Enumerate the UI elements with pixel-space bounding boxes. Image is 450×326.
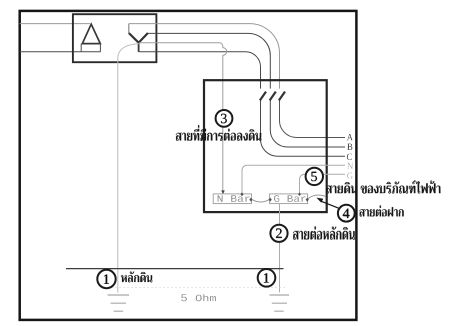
wire phase B (wye right arm to panel, label B) [148, 33, 270, 88]
thai label: sai to lak din (grounding electrode conductor) [293, 227, 355, 240]
thai label: sai to fak (bonding jumper) [359, 206, 403, 217]
neutral terminal label N [347, 163, 353, 169]
resistance note 5 Ohm [181, 294, 187, 301]
wye left riser [128, 24, 130, 34]
delta legs to bottom wire [81, 44, 100, 52]
neutral arrowhead into N bar [221, 190, 225, 194]
grounded neutral drop at transformer (to left ground rod) [118, 44, 139, 293]
neutral bar (N Bar) [213, 194, 251, 204]
transformer U1 box [73, 14, 156, 62]
G Bar label [274, 195, 306, 202]
ground bar (G Bar) [270, 194, 308, 204]
phase terminal label B [347, 144, 352, 150]
callout arrow from circle 4 to bonding jumper [321, 201, 340, 208]
wire phase C (wye stem bottom to panel, label C) [139, 52, 261, 89]
thai label: sai din khong boriphan faifa (equipment ground) [326, 180, 440, 193]
transformer wye winding [129, 33, 148, 43]
wire phase A incoming (source to delta apex) [20, 23, 90, 25]
callout circle 2 (grounding electrode conductor) [270, 225, 287, 242]
neutral wire N (wye center to N bar, with crossover hop) [139, 43, 227, 191]
terminal diamond G bar top [298, 192, 301, 196]
terminal diamond G bar right end [306, 198, 309, 202]
callout circle 1 (right, ground rod) [258, 269, 276, 287]
thai label: lak din (ground rod) [121, 272, 152, 283]
callout circle 5 (equipment grounding conductor) [306, 168, 323, 185]
transformer delta winding [82, 24, 100, 43]
callout circle 3 (grounded conductor) [216, 110, 233, 127]
wire phase C incoming bottom line (source, under delta) [20, 51, 101, 53]
breaker slash on wire B [270, 92, 276, 101]
breaker slash on wire C [260, 92, 266, 101]
service panel enclosure [204, 80, 327, 212]
ground terminal label G [347, 172, 352, 178]
terminal diamond N bar right end [249, 198, 252, 202]
wye stem [138, 42, 140, 51]
earth dotted line (5 Ohm) [104, 287, 286, 289]
thai label: sai thi mi kan to long din (grounded conductor) [176, 125, 262, 141]
wire phase A (wye top to panel, label A) [129, 24, 280, 89]
terminal diamond G bar left end [269, 198, 272, 202]
grounding electrode conductor from G bar (to right ground rod) [279, 204, 281, 293]
wire N bar to terminal N (right) [242, 165, 345, 194]
bonding jumper G bar to enclosure wall [308, 195, 326, 199]
N Bar label [218, 195, 250, 202]
breaker slash on wire A [279, 92, 285, 101]
callout circle 1 (left, ground rod) [97, 270, 115, 288]
outer border frame [20, 11, 357, 320]
phase terminal label C [347, 154, 352, 160]
callout circle 4 (bonding jumper) [338, 205, 355, 222]
left ground rod electrode [108, 295, 129, 311]
phase terminal label A [347, 134, 353, 140]
wire G bar to terminal G (right) [300, 174, 346, 194]
ground bus horizontal (earth line) [66, 268, 284, 270]
terminal diamond on N bar top [240, 192, 243, 196]
right ground rod electrode [270, 295, 290, 311]
bonding jumper N bar to G bar [252, 199, 270, 202]
